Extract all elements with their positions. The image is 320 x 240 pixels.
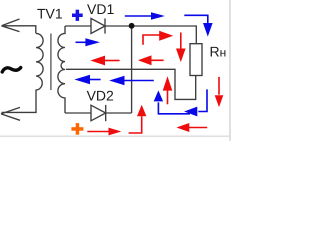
- svg-text:VD1: VD1: [87, 1, 114, 17]
- svg-text:Rн: Rн: [210, 43, 227, 59]
- svg-text:VD2: VD2: [87, 87, 114, 103]
- svg-text:TV1: TV1: [37, 6, 63, 22]
